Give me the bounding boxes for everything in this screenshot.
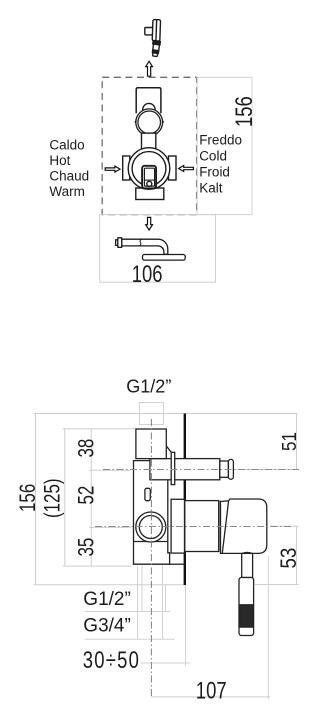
diverter knob circle outer	[136, 109, 163, 136]
svg-text:38: 38	[74, 439, 99, 458]
svg-text:Warm: Warm	[49, 184, 85, 199]
right inlet tab	[169, 156, 177, 180]
svg-text:Cold: Cold	[199, 148, 227, 163]
body internal line	[134, 541, 168, 543]
ghost pipe extension rect	[139, 403, 163, 425]
shower arm icon	[116, 238, 186, 260]
up arrow (outlet to hand shower)	[146, 61, 153, 76]
groove	[219, 501, 221, 552]
extension tick y=469.5 right	[236, 469, 299, 471]
extension tick y=428.8	[63, 428, 136, 430]
chamfer to union	[166, 446, 171, 452]
dimension line 53 (right)	[296, 526, 298, 584]
trim sleeve strip	[171, 499, 184, 553]
valve body (side view)	[134, 429, 234, 564]
svg-text:106: 106	[132, 261, 163, 288]
dashed installation box	[102, 77, 196, 214]
vertical centerline of valve	[150, 419, 152, 697]
knurled band	[240, 605, 253, 627]
grip cone line	[222, 501, 228, 553]
dimension extension line top (y=413.5)	[34, 413, 298, 415]
dimension line 51 (right top)	[296, 414, 298, 470]
neck between knob and valve	[142, 133, 156, 151]
right info box (156)	[197, 77, 252, 214]
top port	[136, 429, 166, 459]
dimension line 107 (bottom)	[151, 696, 270, 698]
svg-text:Caldo: Caldo	[49, 137, 84, 152]
svg-text:156: 156	[231, 96, 258, 127]
svg-text:35: 35	[74, 538, 99, 557]
cartridge circle inner	[139, 516, 162, 539]
left inlet tab	[123, 156, 130, 180]
extension tick y=526.2 right	[270, 525, 299, 527]
small button on body	[145, 488, 150, 500]
handle (side view)	[185, 499, 267, 636]
svg-text:156: 156	[16, 484, 41, 512]
diverter hex nut ears	[134, 118, 137, 127]
port leader verticals	[137, 566, 139, 640]
svg-text:51: 51	[278, 432, 301, 451]
extension tick y=527.4	[89, 526, 131, 528]
main valve outer circle	[128, 148, 170, 190]
svg-text:107: 107	[196, 677, 227, 704]
dimension line 156 (left)	[35, 414, 37, 585]
extension 107 right	[267, 556, 269, 700]
diverter knob circle inner	[138, 111, 161, 134]
diverter bump arc	[143, 103, 155, 115]
extension tick y=566.1	[63, 565, 132, 567]
svg-text:Chaud: Chaud	[49, 169, 89, 184]
outlet pipe through wall	[150, 459, 220, 480]
main valve inner circle	[132, 152, 166, 186]
union flange ring	[171, 452, 175, 484]
bottom outlet rect	[136, 188, 164, 200]
down arrow (outlet to spout)	[146, 217, 153, 230]
extension tick y=470	[89, 469, 131, 471]
extension tick y=584.5 right	[255, 584, 299, 586]
valve handle	[142, 166, 156, 189]
svg-text:Kalt: Kalt	[199, 181, 223, 196]
dimension line (125)	[64, 429, 66, 566]
dimension line 38/52/35	[90, 429, 92, 566]
hot inlet arrow (points right)	[105, 166, 120, 172]
knob	[239, 578, 254, 636]
hand shower holder icon	[145, 19, 161, 56]
stem	[242, 553, 253, 577]
grip	[221, 499, 267, 553]
svg-text:30÷50: 30÷50	[83, 647, 140, 674]
wall line	[184, 414, 186, 586]
pipe end cap	[228, 459, 233, 479]
svg-text:G3/4”: G3/4”	[83, 615, 131, 636]
horizontal centerline of cartridge	[95, 526, 292, 528]
svg-text:Freddo: Freddo	[199, 132, 242, 147]
svg-text:Hot: Hot	[49, 153, 70, 168]
svg-text:Froid: Froid	[199, 165, 230, 180]
svg-text:G1/2”: G1/2”	[83, 589, 131, 610]
svg-text:(125): (125)	[40, 478, 65, 518]
stem dome arc	[242, 552, 253, 553]
bottom info box (106)	[100, 215, 216, 283]
extension line bottom of 156 (y=584.8)	[34, 584, 186, 586]
cartridge circle outer	[136, 512, 166, 542]
pipe neck	[220, 461, 229, 477]
svg-text:53: 53	[278, 548, 302, 569]
horizontal centerline of outlet pipe	[103, 469, 300, 471]
body main	[134, 461, 170, 565]
svg-text:G1/2”: G1/2”	[126, 376, 171, 396]
handle base cylinder	[185, 501, 219, 552]
valve front view: riser pipe rect	[136, 88, 161, 114]
cold inlet arrow (points left)	[179, 166, 194, 172]
body lower edge to wall	[170, 563, 185, 565]
svg-text:52: 52	[74, 486, 99, 505]
